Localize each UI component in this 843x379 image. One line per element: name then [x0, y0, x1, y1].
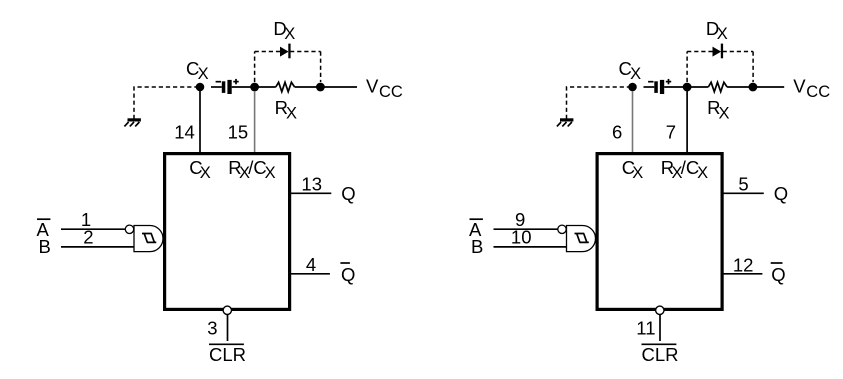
wire (dashed) ground to Cx node	[567, 87, 630, 119]
pin 3 lead	[227, 315, 229, 341]
label Dx	[273, 18, 295, 43]
AND gate	[134, 226, 163, 252]
label CLR overline	[209, 343, 244, 345]
monostable block	[165, 154, 290, 310]
node Vcc rail junction	[316, 83, 325, 92]
svg-text:X: X	[265, 164, 276, 182]
label Vcc	[793, 75, 830, 101]
svg-text:Q: Q	[341, 264, 355, 285]
diode Dx dashed branch left riser	[686, 52, 688, 83]
svg-text:B: B	[471, 236, 483, 257]
ground	[557, 118, 574, 126]
label Abar	[37, 219, 51, 240]
svg-text:V: V	[793, 75, 806, 96]
input B wire (pin 10)	[494, 246, 567, 248]
wire capacitor to Rx/Cx node	[232, 86, 251, 88]
pin 14 lead	[199, 91, 201, 152]
label Qbar	[771, 263, 786, 285]
label CLR overline	[642, 343, 677, 345]
svg-text:15: 15	[228, 122, 249, 143]
svg-text:Q: Q	[771, 264, 785, 285]
input A wire (pin 1)	[61, 228, 125, 230]
diode Dx dashed branch top run	[255, 51, 321, 53]
svg-text:12: 12	[733, 255, 754, 276]
label Dx	[706, 18, 728, 43]
pin 15 lead (gray)	[254, 91, 256, 152]
pin 11 lead	[659, 315, 661, 341]
svg-text:7: 7	[666, 122, 676, 143]
AND gate	[567, 226, 596, 252]
output Q lead (pin 5)	[724, 192, 764, 194]
output Qbar lead (pin 12)	[724, 273, 763, 275]
label Rx/Cx (block pin)	[228, 157, 275, 182]
svg-text:X: X	[632, 164, 643, 182]
svg-text:6: 6	[612, 122, 622, 143]
svg-text:13: 13	[301, 174, 322, 195]
wire node to Vcc label	[753, 86, 784, 88]
wire (dashed) ground to Cx node	[134, 87, 197, 119]
svg-text:X: X	[697, 164, 708, 182]
svg-text:10: 10	[511, 227, 532, 248]
pin 7 lead	[686, 91, 688, 152]
wire capacitor to Rx/Cx node	[664, 86, 683, 88]
svg-text:Q: Q	[341, 183, 355, 204]
svg-text:X: X	[284, 25, 295, 43]
svg-text:5: 5	[738, 174, 748, 195]
node Cx terminal	[196, 83, 205, 92]
label Qbar	[340, 263, 355, 285]
svg-text:CLR: CLR	[642, 344, 679, 365]
svg-text:CC: CC	[806, 83, 830, 101]
svg-text:4: 4	[306, 254, 316, 275]
capacitor Cx plus mark	[233, 79, 238, 84]
input A wire (pin 9)	[494, 228, 558, 230]
svg-text:11: 11	[636, 317, 655, 338]
svg-text:14: 14	[174, 122, 195, 143]
node Rx/Cx terminal	[250, 83, 259, 92]
CLR bubble	[223, 306, 231, 314]
svg-text:X: X	[198, 65, 209, 83]
label Cx (external capacitor)	[619, 58, 642, 83]
pin 6 lead (gray)	[632, 91, 634, 152]
gate input bubble	[125, 225, 133, 233]
label Cx (block pin)	[622, 157, 644, 182]
resistor Rx	[708, 82, 727, 91]
node Cx terminal	[628, 83, 637, 92]
CLR bubble	[656, 306, 664, 314]
diode Dx dashed branch right riser	[320, 52, 322, 83]
capacitor Cx minus mark	[216, 81, 221, 83]
label Rx	[707, 97, 729, 122]
svg-text:V: V	[366, 75, 379, 96]
wire resistor to Vcc node	[727, 86, 752, 88]
wire node to Vcc label	[320, 86, 357, 88]
capacitor Cx right plate	[227, 80, 231, 94]
diode Dx dashed branch left riser	[254, 52, 256, 83]
wire resistor to Vcc node	[295, 86, 320, 88]
label Cx (block pin)	[189, 157, 211, 182]
diode Dx dashed branch right riser	[752, 52, 754, 83]
capacitor Cx plus mark	[666, 79, 671, 84]
label Cx (external capacitor)	[186, 58, 209, 83]
svg-text:3: 3	[207, 317, 217, 338]
node Rx/Cx terminal	[683, 83, 692, 92]
svg-text:X: X	[630, 65, 641, 83]
svg-text:Q: Q	[774, 183, 788, 204]
diode Dx dashed branch top run	[687, 51, 753, 53]
edge-trigger symbol inside gate	[575, 234, 589, 243]
ground	[124, 118, 140, 126]
svg-text:X: X	[286, 104, 297, 122]
wire node to resistor	[255, 86, 276, 88]
input B wire (pin 2)	[61, 246, 134, 248]
label Rx	[275, 97, 297, 122]
svg-text:X: X	[717, 25, 728, 43]
svg-text:X: X	[719, 104, 730, 122]
capacitor Cx minus mark	[648, 81, 653, 83]
label Rx/Cx (block pin)	[661, 157, 708, 182]
svg-text:2: 2	[83, 227, 93, 248]
wire Cx node to capacitor	[644, 86, 655, 88]
diode Dx	[280, 44, 291, 59]
gate input bubble	[558, 225, 566, 233]
output Qbar lead (pin 4)	[291, 273, 330, 275]
resistor Rx	[276, 82, 295, 91]
svg-text:CC: CC	[379, 83, 403, 101]
label Vcc	[366, 75, 403, 101]
diode Dx	[713, 44, 724, 59]
output Q lead (pin 13)	[291, 192, 331, 194]
svg-text:X: X	[200, 164, 211, 182]
capacitor Cx right plate	[660, 80, 664, 94]
capacitor Cx left plate	[654, 81, 658, 93]
monostable block	[597, 154, 722, 310]
label Abar	[469, 219, 483, 240]
wire node to resistor	[687, 86, 708, 88]
capacitor Cx left plate	[222, 81, 226, 93]
svg-text:CLR: CLR	[209, 344, 246, 365]
svg-text:B: B	[39, 236, 51, 257]
edge-trigger symbol inside gate	[142, 234, 156, 243]
wire Cx node to capacitor	[211, 86, 222, 88]
node Vcc rail junction	[749, 83, 758, 92]
